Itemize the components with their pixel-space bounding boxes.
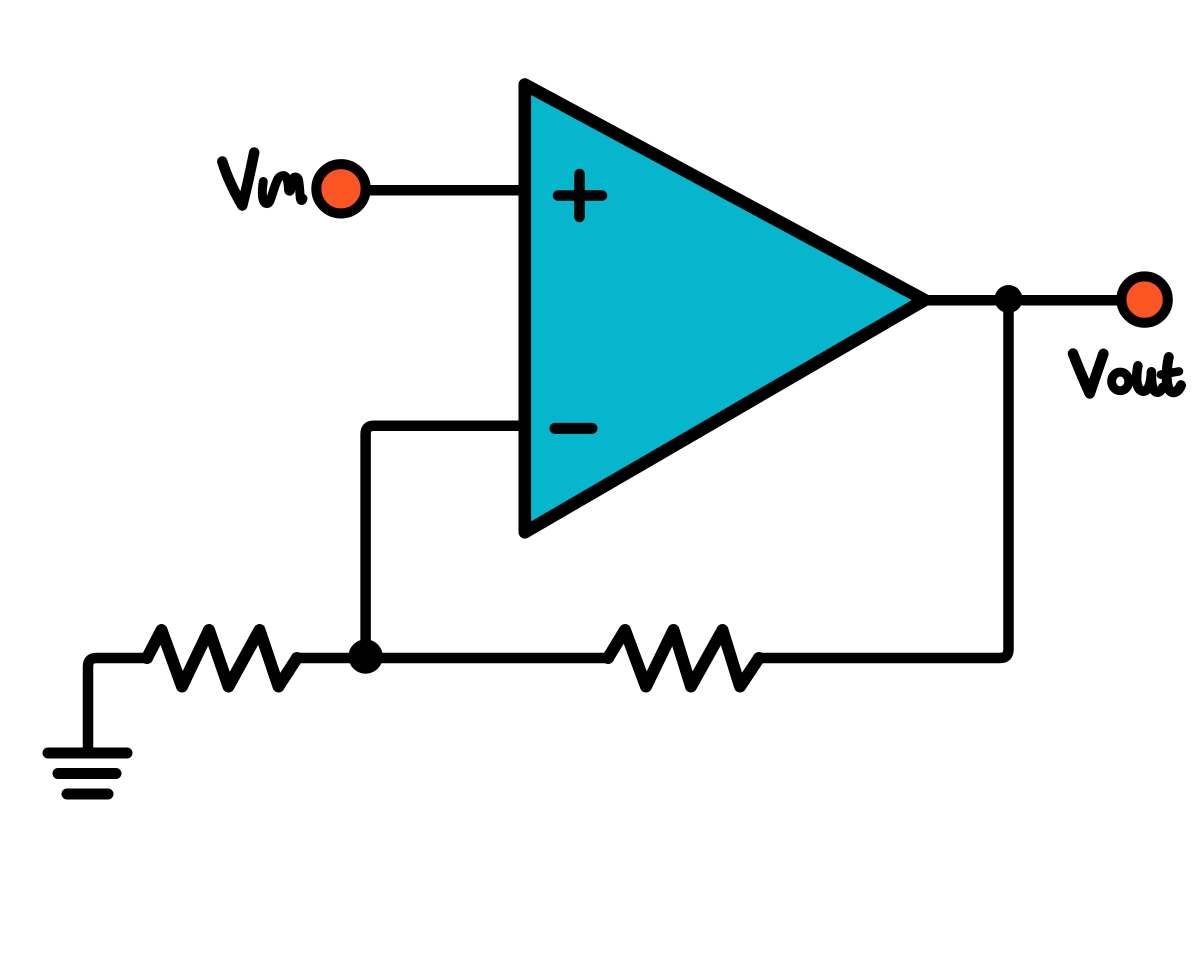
node A junction [348, 639, 382, 673]
label Vin [222, 153, 303, 206]
op-amp non-inverting input + symbol [558, 174, 602, 217]
node output junction [995, 285, 1023, 313]
resistor R2 [608, 630, 759, 687]
label Vout [1073, 354, 1181, 394]
wire node A up and right to - input [366, 426, 524, 657]
terminal Vin [316, 164, 365, 213]
wire feedback: node down and left to R2 [758, 296, 1009, 658]
op-amp U1 body [525, 85, 925, 533]
wire Vin terminal to + input [341, 185, 524, 196]
wire R1 to ground [88, 658, 148, 752]
terminal Vout [1121, 276, 1167, 322]
wire node A to R1 [296, 653, 366, 664]
op-amp inverting input - symbol [555, 423, 592, 434]
resistor R1 [147, 630, 297, 687]
ground [48, 753, 127, 794]
wire R2 to node A [365, 653, 609, 664]
wire op-amp output to Vout terminal [920, 295, 1145, 306]
